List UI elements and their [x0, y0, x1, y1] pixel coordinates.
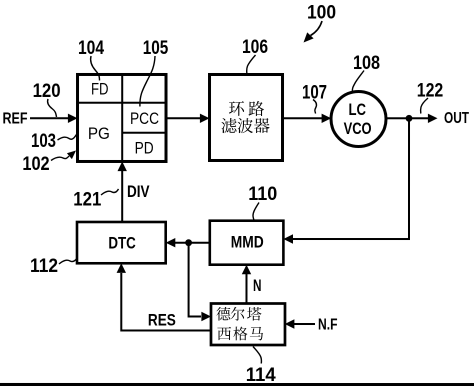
- svg-text:104: 104: [78, 38, 104, 59]
- svg-text:N.F: N.F: [318, 317, 338, 334]
- svg-text:VCO: VCO: [344, 119, 372, 138]
- wire MMD to DTC: [175, 242, 210, 244]
- label 德尔塔西格马 (delta sigma): [216, 307, 263, 341]
- node dot at output: [406, 115, 413, 122]
- wire REF input: [30, 117, 68, 119]
- wire VCO to OUT: [386, 117, 428, 119]
- block 112: DTC box: [77, 222, 166, 263]
- wire N delta-sigma to MMD: [245, 274, 247, 304]
- node dot on MMD-DTC wire: [185, 239, 192, 246]
- svg-text:DIV: DIV: [127, 183, 150, 201]
- svg-text:105: 105: [143, 38, 169, 59]
- wire DIV DTC to quad box: [121, 171, 123, 222]
- wire N.F input: [294, 323, 315, 325]
- svg-text:LC: LC: [348, 100, 366, 119]
- oscillator 108: LC VCO circle: [331, 92, 386, 147]
- svg-text:N: N: [253, 277, 262, 295]
- label 环路滤波器 (loop filter): [221, 101, 269, 133]
- wire branch dot to delta-sigma clock: [189, 243, 201, 317]
- svg-text:OUT: OUT: [444, 110, 469, 127]
- svg-text:112: 112: [30, 256, 58, 277]
- block 106: loop filter box: [210, 74, 283, 160]
- svg-text:122: 122: [417, 81, 444, 102]
- wire feedback OUT to MMD: [293, 118, 409, 239]
- svg-text:102: 102: [22, 154, 49, 175]
- wire RES delta-sigma to DTC: [121, 273, 211, 331]
- svg-text:121: 121: [73, 189, 101, 210]
- svg-text:110: 110: [248, 184, 277, 205]
- block 110: MMD box: [210, 221, 284, 265]
- svg-text:RES: RES: [148, 310, 176, 329]
- block 102: phase generator quad box (FD/PG/PCC/PD): [78, 74, 167, 161]
- svg-text:PG: PG: [88, 124, 110, 143]
- bottom page rule: [0, 383, 474, 386]
- svg-text:FD: FD: [91, 79, 109, 98]
- svg-text:100: 100: [307, 3, 336, 24]
- wire PCC to loop filter: [166, 117, 200, 119]
- svg-text:PD: PD: [135, 138, 154, 157]
- svg-text:108: 108: [353, 53, 380, 74]
- svg-text:DTC: DTC: [108, 234, 136, 253]
- svg-text:PCC: PCC: [130, 109, 159, 128]
- block 114: delta-sigma box: [211, 303, 285, 345]
- wire loop filter to VCO: [283, 117, 323, 119]
- svg-text:103: 103: [31, 131, 56, 152]
- svg-text:MMD: MMD: [231, 232, 264, 251]
- svg-text:120: 120: [33, 81, 61, 102]
- svg-text:REF: REF: [3, 110, 28, 127]
- svg-text:114: 114: [246, 365, 276, 386]
